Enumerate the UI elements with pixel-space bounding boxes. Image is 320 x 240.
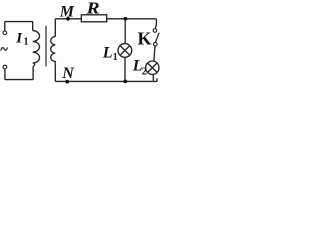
terminal circle: source top (3, 31, 7, 35)
wire: source loop top (5, 22, 33, 31)
wire: secondary top to resistor (55, 19, 81, 37)
svg-text:L: L (102, 45, 113, 62)
switch K (153, 29, 159, 46)
svg-text:M: M (59, 3, 75, 20)
node M dot (66, 17, 70, 21)
wire: L1 branch upper lead (124, 19, 126, 44)
label L2 (132, 57, 147, 77)
lamp L2 (146, 61, 159, 74)
ac source symbol ~ (1, 47, 8, 50)
junction dot: L1 branch bottom (123, 80, 127, 84)
wire: source loop bottom-left (5, 67, 33, 80)
wire: switch to lamp L2 (154, 46, 155, 61)
svg-text:2: 2 (142, 66, 147, 77)
wire: resistor to top-right corner and down to switch (107, 19, 157, 29)
terminal circle: source bottom (3, 65, 7, 69)
label L1 (102, 45, 118, 63)
wire: secondary bottom rail (55, 66, 157, 82)
node N dot (65, 80, 69, 84)
lamp L1 (118, 44, 132, 58)
secondary coil of transformer (51, 37, 56, 66)
svg-text:R: R (85, 0, 99, 17)
transformer core (45, 26, 47, 67)
resistor R (81, 15, 106, 22)
wire: L1 branch lower lead (124, 57, 126, 81)
wire: L2 lower lead (152, 74, 154, 81)
svg-text:1: 1 (113, 52, 118, 63)
svg-text:1: 1 (24, 37, 29, 48)
primary coil of transformer (33, 31, 40, 67)
svg-text:I: I (15, 31, 23, 47)
junction dot: L1 branch top (124, 17, 128, 21)
svg-text:K: K (138, 29, 152, 49)
svg-text:N: N (61, 65, 75, 82)
label I1 (15, 31, 28, 48)
